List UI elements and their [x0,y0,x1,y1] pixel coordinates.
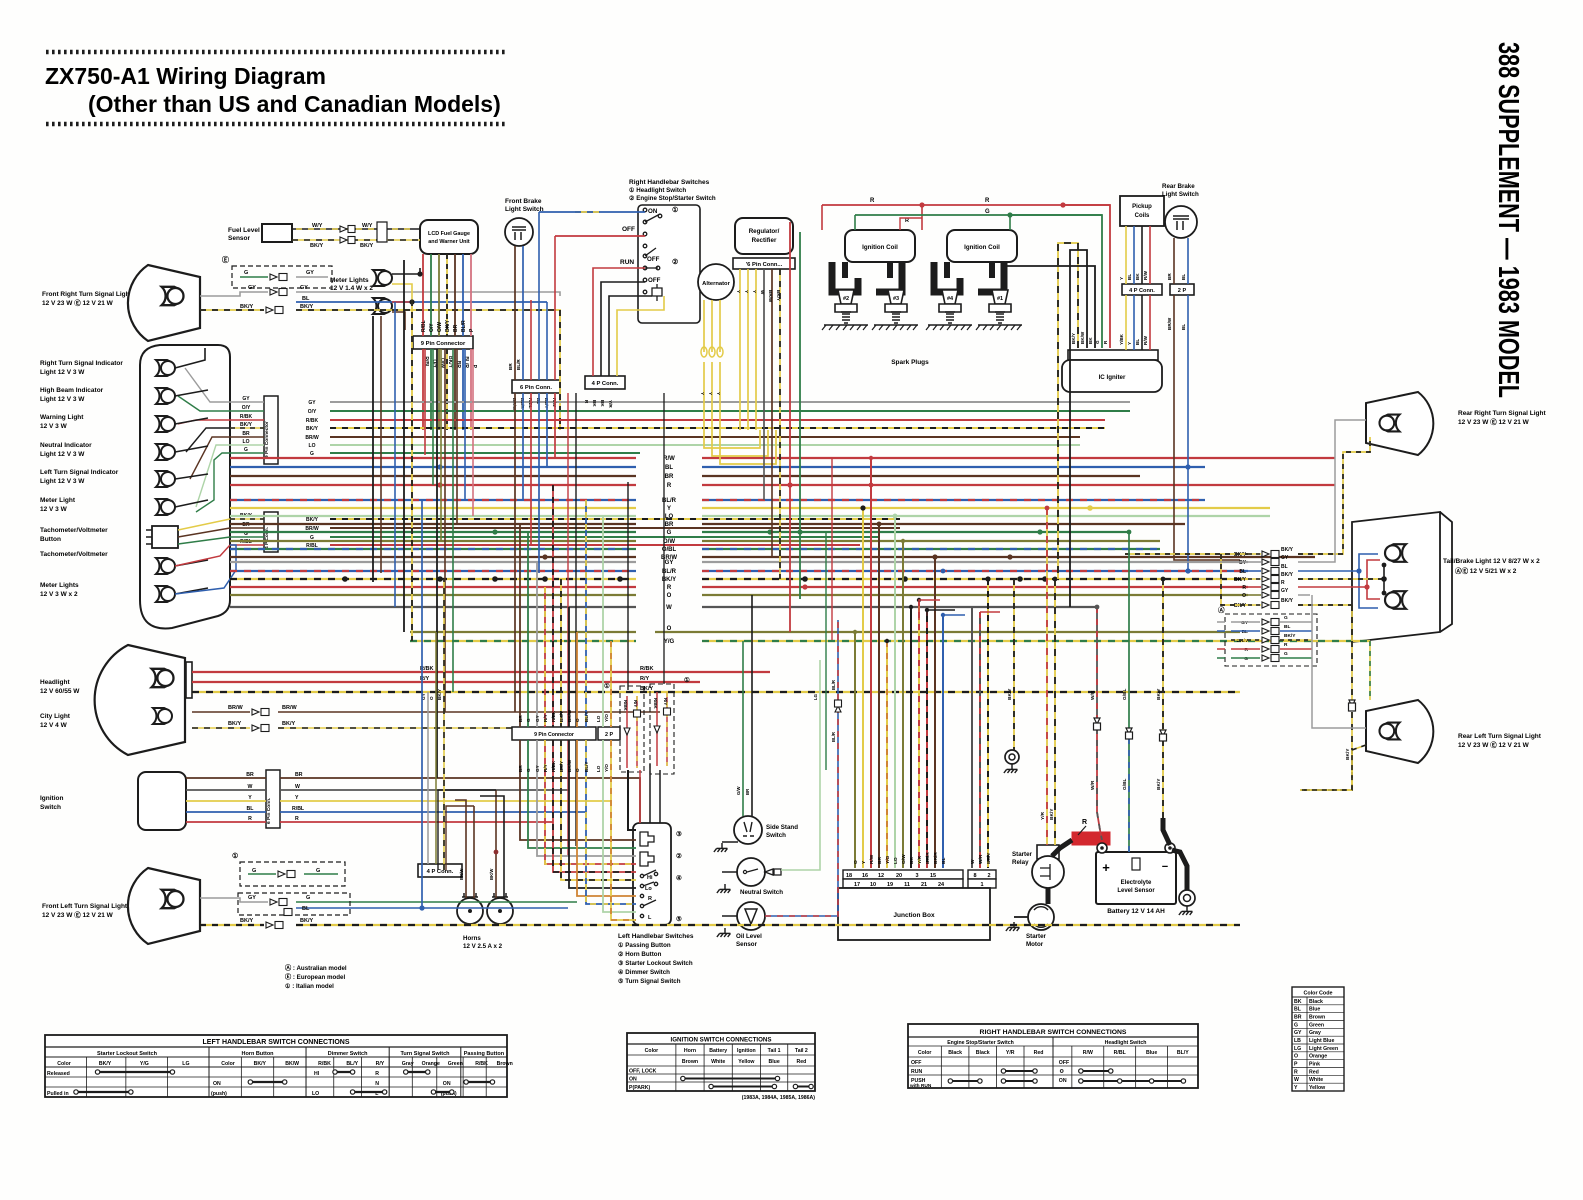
svg-text:Junction Box: Junction Box [893,912,935,919]
svg-text:RUN: RUN [620,259,634,266]
svg-text:②: ② [672,258,678,266]
svg-text:G: G [667,530,672,536]
svg-text:12 V 23 W Ⓔ 12 V 21 W: 12 V 23 W Ⓔ 12 V 21 W [42,910,114,919]
svg-text:Y/R: Y/R [1006,1050,1015,1056]
svg-text:G: G [985,209,990,215]
wire headlight BK/Y [192,691,1240,693]
tail R wiring [1298,560,1380,587]
6pin mid verticals top [530,300,532,380]
svg-text:ON: ON [213,1081,221,1087]
svg-text:Rear Left Turn Signal Light: Rear Left Turn Signal Light [1458,733,1542,740]
neutral switch [737,858,765,886]
lh top wires to bundle [639,770,641,823]
svg-text:BK/Y: BK/Y [1156,688,1162,700]
svg-text:High Beam Indicator: High Beam Indicator [40,387,104,394]
svg-text:G/BL: G/BL [1122,688,1128,700]
svg-text:P(PARK): P(PARK) [629,1085,651,1091]
svg-text:BR: BR [508,363,513,370]
svg-text:Black: Black [948,1050,962,1056]
battery thick cable relay to battery [1052,840,1072,856]
svg-text:LEFT HANDLEBAR SWITCH CONNE: LEFT HANDLEBAR SWITCH CONNECTIONS [203,1039,350,1046]
svg-text:BK/Y: BK/Y [640,686,653,692]
svg-text:BK: BK [592,400,597,407]
svg-text:Relay: Relay [1012,859,1029,866]
svg-text:Ⓐ: Ⓐ [1218,605,1225,614]
svg-text:R: R [985,198,990,204]
svg-text:BK/Y: BK/Y [1234,603,1247,609]
igniter G to bus [1010,215,1102,348]
svg-text:④: ④ [676,874,682,882]
tach voltmeter button box [152,526,178,548]
svg-text:R/BK: R/BK [306,418,319,424]
cluster long rows right of labels [330,401,1130,403]
IC igniter connector strip [1068,350,1158,360]
svg-text:and Warner Unit: and Warner Unit [428,239,470,245]
9 pin connector wires below [422,349,424,430]
svg-text:W: W [666,605,672,611]
ground oil [717,928,731,937]
svg-text:R/BK: R/BK [318,1061,331,1067]
blue vertical to FL BL row [421,500,423,908]
main bundle rows [230,457,636,459]
svg-text:BL: BL [1284,624,1290,630]
svg-text:R/Y: R/Y [663,698,668,705]
svg-text:BL/Y: BL/Y [346,1061,358,1067]
svg-text:Pickup: Pickup [1132,204,1152,210]
svg-text:GY: GY [248,285,256,291]
svg-text:O: O [429,696,434,700]
svg-text:BK/W: BK/W [489,868,494,880]
svg-text:15: 15 [930,873,936,879]
wire fuel sensor W/Y [292,228,420,230]
svg-text:R/Y: R/Y [543,714,548,722]
svg-text:Ignition: Ignition [40,795,63,802]
svg-text:Red: Red [1034,1050,1044,1056]
svg-text:10: 10 [870,882,876,888]
svg-text:BK/R: BK/R [925,852,931,864]
indicator bulb meter light [156,499,175,515]
rear left turn signal light lamp [1366,700,1433,763]
svg-text:Y: Y [1119,277,1124,280]
svg-text:4 P Conn.: 4 P Conn. [1129,288,1155,294]
wire city BK/Y [192,727,250,729]
svg-text:12 V 3 W x 2: 12 V 3 W x 2 [40,591,78,598]
svg-text:BK/Y: BK/Y [1071,333,1076,344]
svg-text:Red: Red [1309,1069,1319,1075]
svg-text:Horns: Horns [463,935,481,942]
rear connector group lower dashed box [1225,614,1317,666]
svg-text:BR: BR [745,788,750,795]
svg-text:RIGHT HANDLEBAR SWITCH CONN: RIGHT HANDLEBAR SWITCH CONNECTIONS [980,1029,1127,1036]
svg-text:GY: GY [1281,555,1289,561]
wire Y/G to rear [1369,641,1371,700]
title dotted rule top [46,50,505,55]
svg-text:Color: Color [645,1048,659,1054]
svg-text:G: G [310,451,314,457]
svg-text:BK: BK [600,400,605,407]
svg-text:G: G [526,718,531,722]
oil level sensor [737,902,765,930]
extra verticals center-left [567,393,569,856]
svg-text:OFF: OFF [647,256,660,263]
svg-text:BL/R: BL/R [831,731,836,742]
wire BK/Y FR [200,309,264,311]
svg-text:O/Y: O/Y [242,405,251,411]
long verticals left-center [372,316,374,582]
tail brake light box [1352,512,1452,642]
svg-text:O: O [667,593,672,599]
svg-text:20: 20 [896,873,902,879]
bundle row Y/G lower [410,640,636,642]
svg-text:Color: Color [221,1061,235,1067]
svg-text:12 V 23 W Ⓔ 12 V 21 W: 12 V 23 W Ⓔ 12 V 21 W [1458,740,1530,749]
fuel sensor connector pair 2 [340,237,347,243]
svg-text:R/BL: R/BL [423,356,429,368]
IC igniter [1062,360,1162,392]
svg-text:Button: Button [40,536,61,543]
svg-text:BK/Y: BK/Y [1281,572,1294,578]
coil 1 bus thick [832,262,902,292]
svg-text:Y/R: Y/R [608,400,613,408]
svg-text:BR/W: BR/W [305,526,319,532]
ground neutral [717,884,731,893]
rear right lamp BK/Y GY drop [1125,553,1248,555]
svg-text:BL: BL [302,296,310,302]
svg-text:Brown: Brown [497,1061,513,1067]
svg-text:6 Pin Conn.: 6 Pin Conn. [266,798,272,824]
svg-text:Orange: Orange [1309,1054,1327,1060]
indicator bulb warning [156,416,175,432]
svg-text:②: ② [676,852,682,860]
ground battery right [1179,890,1195,906]
ground starter motor [1006,922,1020,931]
svg-text:Level Sensor: Level Sensor [1117,888,1155,894]
svg-text:Tail 2: Tail 2 [795,1048,808,1054]
svg-text:BK/Y: BK/Y [99,1061,112,1067]
side stand ground wire [722,841,738,843]
svg-text:Pink: Pink [1309,1062,1320,1068]
svg-text:BR: BR [518,765,523,772]
svg-text:BK/Y: BK/Y [986,852,992,864]
svg-text:R/W: R/W [663,456,675,462]
svg-text:BK/Y: BK/Y [559,711,564,722]
svg-text:Yellow: Yellow [1309,1085,1326,1091]
front right turn signal light lamp [128,265,200,341]
svg-text:Sensor: Sensor [736,941,758,948]
wire BK/Y ground mid [1013,579,1015,750]
svg-text:Side Stand: Side Stand [766,824,798,831]
svg-text:Horn Button: Horn Button [241,1051,274,1057]
rear left signal leads [1312,595,1366,728]
svg-text:4 P Conn.: 4 P Conn. [427,869,454,875]
neutral switch connector [765,869,781,875]
regulator wires down [739,269,741,430]
svg-text:LG: LG [813,693,818,700]
svg-text:Ignition: Ignition [737,1048,756,1054]
svg-text:(Other than US and Canadian Mo: (Other than US and Canadian Models) [88,91,501,117]
svg-text:2 P: 2 P [605,732,613,738]
svg-text:R: R [1082,819,1087,826]
color code table [1292,987,1344,1091]
svg-text:R/W: R/W [1143,335,1148,345]
svg-text:Right Turn Signal Indicator: Right Turn Signal Indicator [40,360,123,367]
svg-text:G: G [306,895,310,901]
svg-text:19: 19 [887,882,893,888]
svg-text:R/BK: R/BK [551,760,556,772]
svg-text:O: O [853,860,859,864]
svg-text:OFF, LOCK: OFF, LOCK [629,1069,657,1075]
svg-text:Front Left Turn Signal Light: Front Left Turn Signal Light [42,903,128,910]
svg-text:BR: BR [455,361,461,369]
svg-text:GY: GY [248,895,256,901]
svg-text:Y/BK: Y/BK [1119,333,1124,345]
coil R drops [821,205,823,230]
vertical bundle from 9pin area [424,349,426,455]
svg-text:OFF: OFF [622,226,635,233]
svg-text:G: G [252,868,256,874]
4P conn mid [585,376,625,389]
svg-text:IGNITION SWITCH CONNECTIONS: IGNITION SWITCH CONNECTIONS [670,1037,771,1044]
svg-text:Hi: Hi [647,875,653,881]
svg-text:Black: Black [976,1050,990,1056]
svg-text:Neutral Switch: Neutral Switch [740,889,783,896]
svg-text:388 SUPPLEMENT — 1983 MODEL: 388 SUPPLEMENT — 1983 MODEL [1492,42,1524,398]
svg-text:Light Green: Light Green [1309,1046,1338,1052]
junction box right pins [971,607,973,868]
svg-text:Electrolyte: Electrolyte [1121,880,1152,886]
horn 2 [487,898,513,924]
svg-text:Neutral Indicator: Neutral Indicator [40,442,92,449]
svg-text:R/Y: R/Y [633,700,638,707]
svg-text:BK/Y: BK/Y [1281,598,1294,604]
battery positive cable red block [1072,832,1110,845]
starter motor ground wire [1014,916,1028,918]
svg-text:−: − [1162,861,1168,873]
svg-text:Right Handlebar Switches: Right Handlebar Switches [629,179,710,186]
svg-text:8: 8 [973,873,976,879]
svg-text:BL/R: BL/R [831,679,836,690]
regulator rectifier [735,218,793,254]
svg-text:Yellow: Yellow [738,1059,755,1065]
svg-text:Switch: Switch [766,832,786,839]
svg-text:LO: LO [596,715,601,722]
long R G verticals center [789,222,791,632]
starter motor [1028,904,1054,930]
alternator [698,264,734,300]
svg-text:⑤ Turn Signal Switch: ⑤ Turn Signal Switch [618,978,681,985]
svg-text:Regulator/: Regulator/ [749,228,780,235]
svg-text:BK/Y: BK/Y [1345,748,1351,760]
meter light bulb B [373,298,392,314]
svg-text:Y/O: Y/O [604,764,609,772]
headlight connector bar [186,662,192,698]
svg-text:12 V 23 W Ⓔ 12 V 21 W: 12 V 23 W Ⓔ 12 V 21 W [1458,417,1530,426]
svg-text:BR: BR [877,857,883,864]
svg-text:⑤: ⑤ [676,915,682,923]
LCD unit wires down to 9 pin connector [422,254,424,336]
svg-text:BK/Y: BK/Y [240,422,253,428]
svg-text:R: R [667,483,672,489]
svg-text:Dimmer Switch: Dimmer Switch [328,1051,368,1057]
oil level wires [722,915,737,917]
svg-text:BK/Y: BK/Y [240,304,253,310]
spark plug 4 [939,290,961,323]
dashed option box FL [240,862,345,886]
rear GY crinkle left [1150,561,1248,563]
svg-text:Y: Y [744,290,749,293]
svg-text:BL/R: BL/R [461,320,467,332]
svg-text:R/BL: R/BL [1114,1050,1127,1056]
meter light bulbs to wires [392,268,420,274]
title dotted rule bottom [46,122,507,127]
svg-text:BK/Y: BK/Y [437,689,442,700]
battery minus cable to ground [1172,850,1187,890]
svg-text:GY: GY [1281,588,1289,594]
svg-text:Sensor: Sensor [228,235,251,242]
ignition switch wires [186,777,266,779]
ignition coil 1 [845,230,915,262]
cluster to connector wires [230,401,264,403]
svg-text:6 Pin Conn.: 6 Pin Conn. [520,385,552,391]
rear brake switch wires lower [1174,295,1240,560]
indicator bulb neutral [156,444,175,460]
extra verticals center-right [825,532,827,770]
wire BK/Y FL [200,924,264,926]
svg-text:BK/Y: BK/Y [776,290,781,301]
junction top bends [919,600,940,620]
ignition coil 2 [947,230,1017,262]
svg-text:Ⓐ : Australian model: Ⓐ : Australian model [285,964,347,972]
svg-text:Battery: Battery [709,1048,727,1054]
svg-text:R/BK: R/BK [653,698,658,710]
svg-text:Warning Light: Warning Light [40,414,84,421]
svg-text:Starter: Starter [1026,933,1047,940]
svg-text:R/BL: R/BL [306,543,318,549]
svg-text:G: G [310,535,314,541]
svg-text:BK/Y: BK/Y [559,761,564,772]
2P connector lower [598,727,620,740]
svg-text:Gray: Gray [1309,1030,1321,1036]
svg-text:① Passing Button: ① Passing Button [618,942,671,949]
svg-text:Fuel Level: Fuel Level [228,227,260,234]
svg-text:#2: #2 [843,296,849,302]
svg-text:Tachometer/Voltmeter: Tachometer/Voltmeter [40,551,108,558]
rear right turn signal light lamp [1366,392,1433,455]
svg-text:#1: #1 [997,296,1003,302]
svg-text:Y: Y [736,290,741,293]
svg-text:W: W [248,784,253,790]
svg-text:ON: ON [648,208,658,215]
coil G bus [855,214,1102,216]
lh bundle verticals [519,524,521,727]
svg-text:Front Right Turn Signal Light: Front Right Turn Signal Light [42,291,133,298]
svg-text:BR/W: BR/W [1167,317,1172,330]
meter light bulb A [373,270,392,286]
lh option wires R/BK R/Y [626,696,628,768]
svg-text:BR/R: BR/R [933,852,939,864]
wire BL FL [296,907,568,909]
svg-text:Y: Y [752,290,757,293]
svg-text:LG: LG [1294,1046,1301,1052]
svg-text:RUN: RUN [911,1069,922,1075]
svg-text:R: R [295,816,299,822]
spark plug 3 [885,290,907,323]
svg-text:12: 12 [878,873,884,879]
svg-text:BL: BL [1239,569,1246,575]
svg-text:BK/Y: BK/Y [306,517,319,523]
svg-text:with RUN: with RUN [909,1083,932,1089]
igniter BK/W long vertical [1070,250,1087,607]
svg-text:O/W: O/W [437,322,443,332]
svg-text:BK/Y: BK/Y [300,918,313,924]
svg-text:Meter Light: Meter Light [40,497,76,504]
svg-text:Alternator: Alternator [702,281,730,287]
svg-text:9 Pin Connector: 9 Pin Connector [264,421,270,458]
tail light bulb 1 [1385,544,1406,562]
svg-text:BL: BL [665,465,673,471]
wire fuel sensor BK/Y [292,239,420,241]
svg-text:'6 Pin Conn...: '6 Pin Conn... [746,262,783,268]
svg-text:R/Y: R/Y [543,764,548,772]
svg-text:BK/Y: BK/Y [300,304,313,310]
ground bkj [1005,750,1019,764]
svg-text:BL: BL [1242,629,1248,635]
svg-text:P: P [1294,1062,1298,1068]
svg-text:R/BK: R/BK [240,414,253,420]
svg-text:City Light: City Light [40,713,71,720]
svg-text:Engine Stop/Starter Switch: Engine Stop/Starter Switch [947,1040,1014,1046]
svg-text:Rear Brake: Rear Brake [1162,183,1195,190]
svg-text:12 V 3 W: 12 V 3 W [40,423,68,430]
svg-text:LB: LB [1294,1038,1301,1044]
4P conn horn area [418,864,462,877]
svg-text:Battery 12 V 14 AH: Battery 12 V 14 AH [1107,908,1165,915]
svg-text:Y/O: Y/O [604,714,609,722]
svg-text:R/W: R/W [1143,270,1148,280]
tail light bulb 2 [1385,591,1406,609]
svg-text:Meter Lights: Meter Lights [330,277,369,284]
svg-text:R/BK: R/BK [551,710,556,722]
svg-text:Color: Color [918,1050,932,1056]
tail BK/Y common [1298,578,1384,580]
ignition switch 6 pin conn [266,770,280,828]
svg-text:R/BL: R/BL [421,320,427,332]
regulator W BR wires down to bundle [763,430,765,500]
svg-text:R/BK: R/BK [640,666,653,672]
svg-text:BK/Y: BK/Y [447,356,453,369]
svg-text:Light 12 V 3 W: Light 12 V 3 W [40,478,85,485]
svg-text:BL: BL [1281,564,1288,570]
svg-text:+: + [1102,860,1110,875]
svg-text:R: R [375,1071,379,1077]
svg-text:G: G [244,447,248,453]
starter relay [1037,845,1059,859]
2P conn [1170,284,1194,295]
cluster bulb black commons [175,348,205,368]
headlight lamp [95,645,185,755]
svg-text:Color: Color [57,1061,71,1067]
svg-text:18: 18 [846,873,852,879]
svg-text:GY: GY [308,400,316,406]
svg-text:Y/G: Y/G [140,1061,149,1067]
svg-text:W/R: W/R [978,854,984,864]
left handlebar switch box [633,823,671,925]
4p left rows right [330,518,900,520]
svg-text:LO: LO [309,443,316,449]
svg-text:12 V 3 W: 12 V 3 W [40,506,68,513]
svg-text:12 V 1.4 W x 2: 12 V 1.4 W x 2 [330,285,373,292]
headlight bulb city [153,708,172,724]
